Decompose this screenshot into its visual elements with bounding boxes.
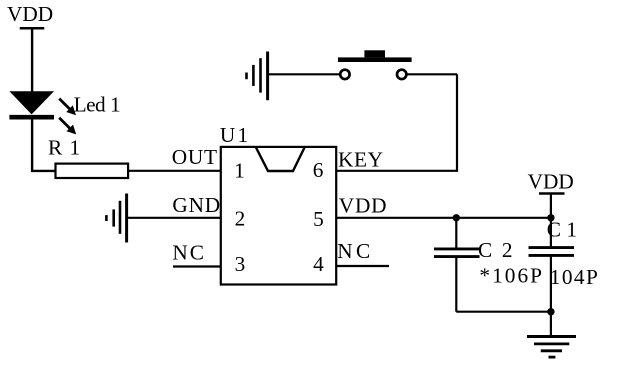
svg-text:C 2: C 2 bbox=[478, 238, 515, 262]
wire C1 bottom plate down to junction bbox=[550, 256, 552, 311]
svg-text:6: 6 bbox=[313, 158, 324, 182]
svg-text:U1: U1 bbox=[220, 123, 250, 147]
wire ground to push button left terminal bbox=[268, 73, 340, 75]
svg-text:Led 1: Led 1 bbox=[74, 92, 121, 116]
ground at U1 pin 2 bbox=[106, 194, 126, 243]
wire push button right terminal to KEY net bbox=[407, 73, 457, 75]
wire stub at pin 4 bbox=[336, 265, 389, 267]
svg-text:5: 5 bbox=[313, 207, 324, 231]
wire VDD to LED anode bbox=[31, 28, 33, 92]
capacitor C1 bbox=[529, 218, 577, 256]
wire VDD bar down to junction bbox=[550, 194, 552, 218]
svg-text:VDD: VDD bbox=[7, 2, 53, 26]
push button S1 bbox=[338, 50, 412, 79]
wire C2 bottom plate down bbox=[455, 258, 457, 312]
junction at ground bbox=[547, 308, 554, 315]
svg-text:OUT: OUT bbox=[172, 145, 218, 169]
wire stub at pin 3 bbox=[173, 265, 221, 267]
ground at push button bbox=[247, 52, 268, 101]
capacitor C2 bbox=[434, 238, 515, 262]
svg-text:104P: 104P bbox=[550, 265, 599, 289]
svg-text:VDD: VDD bbox=[339, 193, 388, 217]
svg-text:C 1: C 1 bbox=[547, 218, 577, 242]
wire junction to ground symbol bbox=[550, 312, 552, 337]
wire ground to U1 pin 2 (GND net) bbox=[127, 217, 221, 219]
junction at C1 top bbox=[547, 214, 554, 221]
wire U1 pin 5 to VDD rail (VDD net) bbox=[336, 217, 551, 219]
wire U1 pin 6 to push button (KEY net) bbox=[336, 74, 457, 171]
svg-text:3: 3 bbox=[235, 252, 246, 276]
svg-text:*106P: *106P bbox=[479, 264, 544, 288]
svg-text:2: 2 bbox=[235, 206, 246, 230]
ground bottom-right bbox=[527, 337, 576, 358]
svg-text:4: 4 bbox=[313, 252, 324, 276]
svg-text:VDD: VDD bbox=[528, 170, 574, 194]
LED Led 1 bbox=[9, 91, 120, 134]
svg-text:NC: NC bbox=[337, 239, 373, 263]
power VDD right bbox=[528, 170, 574, 194]
wire LED cathode to resistor R1 bbox=[32, 117, 56, 171]
wire C1 top lead bbox=[550, 218, 552, 247]
wire resistor to U1 pin 1 (OUT net) bbox=[128, 170, 221, 172]
power VDD top-left bbox=[7, 2, 53, 28]
svg-text:GND: GND bbox=[172, 193, 221, 217]
junction at C2 top bbox=[453, 214, 460, 221]
resistor R1 bbox=[48, 136, 128, 179]
svg-text:R 1: R 1 bbox=[48, 136, 81, 160]
IC U1 body bbox=[220, 123, 336, 284]
svg-text:NC: NC bbox=[172, 241, 206, 265]
svg-text:1: 1 bbox=[234, 158, 245, 182]
wire C2 bottom to ground junction bbox=[456, 311, 551, 313]
wire junction to C2 top plate bbox=[455, 218, 457, 248]
svg-text:KEY: KEY bbox=[338, 147, 384, 171]
